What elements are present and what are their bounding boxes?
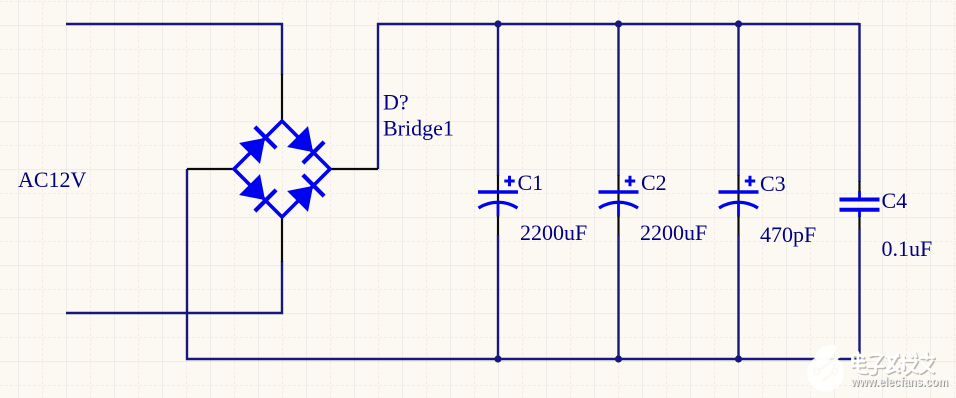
- capacitor C4 plate 2: [840, 208, 880, 212]
- junction dot bottom C3: [735, 355, 742, 362]
- wire: top bus drop to C1: [497, 24, 499, 176]
- capacitor C3 lead stub: [737, 203, 740, 217]
- capacitor C4 pin 1: [858, 181, 860, 192]
- diode top-right (anode top vertex, cathode right vertex): [287, 126, 324, 163]
- wire: bridge left drop to bottom bus: [187, 169, 860, 359]
- capacitor C1 pin 1: [497, 175, 499, 204]
- bridge D? pin 3 (right): [330, 168, 378, 170]
- svg-text:www.elecfans.com: www.elecfans.com: [850, 375, 948, 389]
- wire: bridge bottom to AC bottom lead: [66, 261, 282, 313]
- wire: C2 to bottom bus: [617, 235, 619, 359]
- capacitor C1 positive plate: [478, 190, 518, 194]
- wire: AC top lead to bridge top: [66, 24, 282, 75]
- wire: C4 to bottom bus: [858, 229, 860, 359]
- wire: C3 to bottom bus: [737, 235, 739, 359]
- svg-text:C2: C2: [641, 170, 667, 195]
- capacitor C1 lead stub: [497, 203, 500, 217]
- capacitor C3 plus sign: [745, 176, 755, 186]
- capacitor C1 pin 2: [497, 216, 499, 236]
- wire: C1 to bottom bus: [497, 235, 499, 359]
- diode top-left (anode left vertex, cathode top vertex): [239, 127, 276, 164]
- junction dot bottom C2: [615, 355, 622, 362]
- capacitor C4 lead stub top: [858, 191, 861, 199]
- junction dot top C1: [494, 20, 501, 27]
- capacitor C2 positive plate: [599, 190, 639, 194]
- svg-text:2200uF: 2200uF: [640, 220, 707, 245]
- capacitor C1 curved plate: [479, 202, 518, 208]
- svg-text:Bridge1: Bridge1: [383, 116, 454, 141]
- watermark logo circle: [807, 345, 844, 391]
- capacitor C2 plus sign: [625, 176, 635, 186]
- capacitor C3 curved plate: [719, 202, 758, 208]
- diode bottom-right (anode bottom vertex, cathode right vertex): [287, 175, 324, 212]
- capacitor C2 pin 1: [617, 175, 619, 204]
- svg-text:470pF: 470pF: [760, 222, 816, 247]
- capacitor C2 curved plate: [599, 202, 638, 208]
- wire: top bus drop to C4: [858, 23, 860, 182]
- capacitor C4 pin 2: [858, 217, 860, 231]
- capacitor C3 positive plate: [719, 190, 759, 194]
- capacitor C2 pin 2: [617, 216, 619, 236]
- wire: top bus drop to C2: [617, 24, 619, 176]
- bridge D? pin 1 (top): [281, 74, 283, 121]
- watermark chinese characters: [851, 353, 935, 375]
- svg-text:C3: C3: [760, 171, 786, 196]
- diode bottom-left (anode left vertex, cathode bottom vertex): [239, 174, 276, 211]
- svg-text:D?: D?: [383, 90, 409, 115]
- capacitor C2 lead stub: [617, 203, 620, 217]
- wire: top bus drop to C3: [737, 24, 739, 176]
- bridge D? pin 4 (bottom): [281, 217, 283, 262]
- capacitor C1 plus sign: [504, 176, 514, 186]
- wire: bridge right to positive top bus: [378, 24, 860, 169]
- capacitor C3 pin 2: [737, 216, 739, 236]
- bridge rectifier D? Bridge1 diamond body: [234, 121, 330, 217]
- svg-text:AC12V: AC12V: [18, 167, 87, 192]
- svg-text:2200uF: 2200uF: [520, 220, 587, 245]
- junction dot top C2: [615, 20, 622, 27]
- svg-text:0.1uF: 0.1uF: [882, 236, 933, 261]
- bridge D? pin 2 (left): [187, 168, 234, 170]
- capacitor C3 pin 1: [737, 175, 739, 204]
- capacitor C4 plate 1: [840, 198, 880, 202]
- junction dot top C3: [735, 20, 742, 27]
- svg-text:C1: C1: [518, 170, 544, 195]
- svg-text:C4: C4: [882, 188, 908, 213]
- junction dot bottom C1: [494, 355, 501, 362]
- capacitor C4 lead stub bottom: [858, 211, 861, 218]
- watermark url www.elecfans.com: [850, 375, 949, 390]
